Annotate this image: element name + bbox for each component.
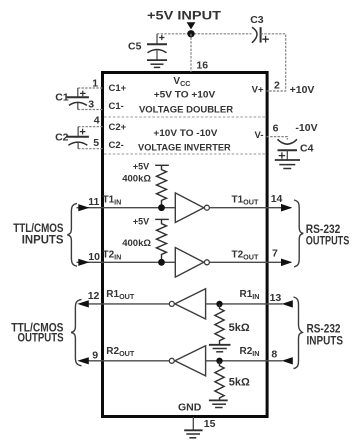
svg-text:-10V: -10V [295,122,317,134]
svg-text:10: 10 [88,251,100,263]
pin 6 label [273,123,279,135]
capacitor C5 [147,34,167,60]
svg-text:INPUTS: INPUTS [22,235,64,247]
svg-text:8: 8 [271,349,277,361]
wire pin16 VCC stub [190,34,192,72]
wire +5V rail horizontal [157,33,252,35]
svg-text:+5V: +5V [133,217,149,227]
brace TTL/CMOS inputs [67,203,77,266]
svg-text:VOLTAGE DOUBLER: VOLTAGE DOUBLER [139,104,233,115]
junction node T1 input [158,204,165,211]
junction node T2 input [158,259,165,266]
op-amp driver T1 (inverter) [175,193,209,223]
arrow into pin 13 [282,300,293,307]
pin 1 label [92,77,98,89]
svg-text:4: 4 [94,115,100,127]
wire T2IN row [77,261,176,263]
pin 13 label [270,292,282,304]
svg-text:R1IN: R1IN [240,289,260,301]
IC section text +5V TO +10V [154,89,216,100]
wire pin 15 GND stub [192,417,194,430]
IC section text VCC [173,76,190,88]
signal label T1OUT [232,195,259,207]
pin 5 label [93,137,99,149]
signal label R2IN [240,346,260,358]
C4 reference label [300,143,314,155]
wire pin 5 stub [78,148,103,150]
svg-text:16: 16 [196,60,208,72]
ground below R2 5k [209,400,228,407]
svg-text:C1-: C1- [109,101,124,112]
resistor R pullup T2 400k top tick [155,218,169,220]
pin 12 label [88,290,100,302]
pin 10 label [88,251,100,263]
pin label C1+ [109,83,127,94]
signal label T2IN [103,249,122,261]
resistor 5k R1 body [215,304,224,344]
wire pin 4 stub [78,126,103,128]
wire T2OUT row [210,261,292,263]
arrow out of pin 9 [77,357,89,364]
op-amp receiver R2 (inverter, points left) [169,346,205,376]
signal label R1OUT [106,289,135,301]
resistor R pullup T1 400k body [157,165,167,207]
node +5V label (T2 pull-up) [133,217,149,227]
svg-text:R2IN: R2IN [240,346,260,358]
svg-text:C1+: C1+ [109,83,127,94]
signal label T2OUT [232,249,259,261]
C5 value label [128,41,142,53]
label TTL/CMOS INPUTS [13,223,64,247]
svg-text:V-: V- [255,130,264,141]
svg-text:C2+: C2+ [109,122,127,133]
svg-text:5kΩ: 5kΩ [229,322,250,334]
svg-text:T2OUT: T2OUT [232,249,259,261]
svg-text:400kΩ: 400kΩ [122,238,151,249]
svg-text:C1: C1 [55,91,69,103]
svg-text:R1OUT: R1OUT [106,289,135,301]
pin 2 label [274,80,280,92]
divider between doubler and inverter sections [104,116,266,118]
resistor R pullup T2 400k body [157,219,167,262]
brace TTL/CMOS outputs [71,299,81,365]
pin 7 label [272,248,278,260]
IC section text +10V TO -10V [153,128,218,139]
svg-text:INPUTS: INPUTS [307,334,344,348]
wire R1 row (receiver 1) [80,303,169,305]
svg-text:+5V INPUT: +5V INPUT [147,10,221,22]
svg-text:C5: C5 [128,41,142,53]
svg-text:R2OUT: R2OUT [106,346,135,358]
ground at pin 15 [184,430,202,438]
pin 8 label [271,349,277,361]
svg-text:+10V: +10V [290,84,315,96]
svg-text:GND: GND [178,402,202,414]
svg-text:400kΩ: 400kΩ [122,173,151,184]
C1 reference label [55,91,69,103]
wire R2 input side [206,360,283,362]
svg-text:C2-: C2- [109,140,124,151]
400k value label (T2) [122,238,151,249]
label RS-232 INPUTS [307,322,344,348]
op-amp driver T2 (inverter) [175,248,209,278]
svg-text:+5V: +5V [133,162,149,172]
pin 11 label [88,196,99,208]
svg-text:1: 1 [92,77,98,89]
svg-text:15: 15 [204,418,216,430]
svg-text:VCC: VCC [173,76,190,88]
arrow out of pin 14 [281,204,292,212]
wire R1 input side [206,303,283,305]
capacitor C3 [252,27,269,43]
svg-text:5kΩ: 5kΩ [229,376,250,388]
capacitor C4 [278,139,298,160]
signal label R1IN [240,289,260,301]
brace RS-232 outputs [294,200,303,267]
node -10V label [295,122,317,134]
junction node on +5V rail [187,30,194,37]
pin 14 label [271,193,283,205]
pin label C1- [109,101,124,112]
pin label C2- [109,140,124,151]
resistor R pullup T1 400k top tick [155,164,169,166]
pin 4 label [94,115,100,127]
wire T1IN row [77,207,176,209]
C2 reference label [55,132,69,144]
arrow out of pin 12 [77,300,89,307]
signal label T1IN [103,195,122,207]
pin label V- [255,130,264,141]
pin 3 label [88,98,94,110]
svg-text:3: 3 [88,98,94,110]
label RS-232 OUTPUTS [306,222,350,248]
arrow out of pin 7 [281,259,292,267]
wire pin 3 stub [78,109,103,111]
svg-text:C2: C2 [55,132,69,144]
pin 16 label [196,60,208,72]
node +5V INPUT label [147,10,221,22]
ground below C4 [275,160,300,169]
arrow into pin 8 [282,357,293,364]
svg-text:OUTPUTS: OUTPUTS [306,234,350,248]
svg-text:V+: V+ [252,85,264,96]
IC section text VOLTAGE DOUBLER [139,104,233,115]
wire R2 row (receiver 2) [80,360,169,362]
400k value label (T1) [122,173,151,184]
svg-text:9: 9 [92,350,98,362]
wire pin 6 V- stub [267,137,288,140]
ground below R1 5k [209,345,231,352]
wire T1OUT row [210,207,292,209]
C3 reference label [250,14,264,26]
+5V input arrow [187,22,196,29]
svg-text:T1IN: T1IN [103,195,122,207]
pin 15 label [204,418,216,430]
op-amp receiver R1 (inverter, points left) [169,289,205,319]
pin 9 label [92,350,98,362]
brace RS-232 inputs [294,297,303,369]
IC U1 body (MAX232 transceiver box) [103,73,268,417]
GND label inside IC [178,402,202,414]
svg-text:+10V TO -10V: +10V TO -10V [153,128,218,139]
svg-text:C4: C4 [300,143,314,155]
svg-text:6: 6 [273,123,279,135]
svg-text:7: 7 [272,248,278,260]
svg-text:11: 11 [88,196,99,208]
node +5V label (T1 pull-up) [133,162,149,172]
svg-text:VOLTAGE INVERTER: VOLTAGE INVERTER [138,142,231,153]
svg-text:2: 2 [274,80,280,92]
ground below C5 [147,60,167,67]
resistor 5k R2 body [215,361,224,401]
5k value label (R1) [229,322,250,334]
capacitor C1 [67,88,89,110]
pin label V+ [252,85,264,96]
svg-text:T1OUT: T1OUT [232,195,259,207]
svg-text:T2IN: T2IN [103,249,122,261]
svg-text:TTL/CMOS: TTL/CMOS [13,223,64,235]
IC section text VOLTAGE INVERTER [138,142,231,153]
wire C3 to V+ corner [261,34,286,91]
svg-text:C3: C3 [250,14,264,26]
wire pin 1 stub [78,87,103,89]
signal label R2OUT [106,346,135,358]
capacitor C2 [66,127,89,149]
label TTL/CMOS OUTPUTS [11,322,63,344]
svg-text:12: 12 [88,290,100,302]
svg-text:5: 5 [93,137,99,149]
svg-text:+5V TO +10V: +5V TO +10V [154,89,216,100]
junction node R1 input [216,301,222,307]
svg-text:OUTPUTS: OUTPUTS [18,333,64,345]
5k value label (R2) [229,376,250,388]
divider between inverter and driver sections [104,153,266,155]
node +10V label [290,84,315,96]
junction node R2 input [216,358,222,364]
arrow into pin 11 [78,204,89,211]
svg-text:14: 14 [271,193,283,205]
svg-text:13: 13 [270,292,282,304]
pin label C2+ [109,122,127,133]
arrow into pin 10 [78,259,89,266]
